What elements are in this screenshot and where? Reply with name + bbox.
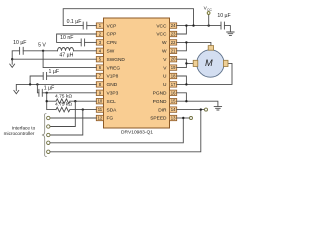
ground G4 bars — [214, 107, 221, 110]
svg-text:10 µF: 10 µF — [217, 13, 230, 19]
wire SW row pin4 — [12, 51, 96, 59]
pin names right — [150, 23, 167, 121]
svg-text:4.75 kΩ: 4.75 kΩ — [55, 93, 72, 99]
ground G3 bars — [227, 32, 234, 35]
ground G1 stub — [11, 59, 13, 64]
wire pin23 joins rail — [177, 26, 187, 34]
node rail-loop junction — [192, 24, 194, 26]
svg-text:V3P3: V3P3 — [107, 91, 119, 97]
motor terminal right — [223, 60, 228, 66]
node V3P3 junction — [46, 92, 48, 94]
svg-text:SWGND: SWGND — [107, 57, 126, 63]
svg-text:5 V: 5 V — [38, 42, 46, 48]
capacitor C4 1uF — [43, 73, 46, 80]
node GND-C5 junction — [36, 83, 38, 85]
svg-text:13: 13 — [171, 116, 176, 121]
wire circle4 SPEED row — [50, 118, 183, 143]
capacitor C6 10uF — [221, 22, 224, 29]
wire V row pin20 — [177, 59, 194, 63]
terminal circle1 FG — [47, 116, 50, 119]
svg-text:23: 23 — [171, 32, 176, 37]
wire C1 to pin1 — [87, 25, 97, 27]
svg-text:VREG: VREG — [107, 65, 121, 71]
svg-text:24: 24 — [171, 23, 176, 28]
node U junction — [185, 83, 187, 85]
wire pin19 joins V — [177, 63, 187, 67]
wire SDA to circle3 — [50, 110, 83, 135]
motor terminal top — [208, 46, 213, 51]
wire W row pin22 to motor top — [177, 42, 211, 45]
brace interface — [42, 114, 46, 157]
svg-text:U: U — [163, 74, 167, 80]
node DIR junction — [200, 108, 202, 110]
svg-text:VCC: VCC — [156, 23, 167, 29]
wire pin21 joins W — [177, 42, 187, 50]
svg-text:PGND: PGND — [153, 91, 167, 97]
wire VCP top loop to VCC rail — [63, 9, 193, 26]
svg-text:0.1 µF: 0.1 µF — [67, 19, 82, 25]
wire V1P8 row pin7 — [30, 76, 96, 84]
terminal circle4 SPEED — [47, 141, 50, 144]
svg-text:11: 11 — [98, 107, 103, 112]
node W junction — [185, 41, 187, 43]
svg-text:U: U — [163, 82, 167, 88]
node SCL tap — [74, 100, 76, 102]
svg-text:microcontroller: microcontroller — [4, 131, 35, 136]
svg-text:DRV10983-Q1: DRV10983-Q1 — [121, 130, 153, 136]
wire SDA row pin11 — [70, 109, 96, 111]
node SCL-pullup junction — [46, 100, 48, 102]
svg-text:GND: GND — [107, 82, 118, 88]
wire U row pin18 to motor right — [177, 76, 187, 84]
svg-text:DIR: DIR — [158, 107, 167, 113]
wire circle5 DIR row — [50, 110, 201, 152]
terminal VCC circle — [207, 12, 210, 15]
terminal SPEED circle — [190, 117, 193, 120]
svg-text:16: 16 — [171, 90, 176, 95]
capacitor C1 0.1uF — [83, 22, 87, 29]
node SPEED junction — [182, 117, 184, 119]
svg-text:W: W — [162, 40, 167, 46]
node SWGND junction — [11, 58, 13, 60]
svg-text:4.75 kΩ: 4.75 kΩ — [55, 102, 72, 108]
svg-text:V1P8: V1P8 — [107, 74, 119, 80]
svg-text:14: 14 — [171, 107, 176, 112]
motor terminal left — [193, 60, 198, 66]
capacitor C5 1uF — [39, 89, 42, 96]
wire PGND rail pin15 to ground — [177, 101, 218, 106]
svg-text:1 µF: 1 µF — [44, 85, 54, 91]
wire 5V to VREG pin6 — [43, 51, 96, 68]
pin numbers right 24-13 — [171, 23, 176, 120]
node V junction — [185, 62, 187, 64]
svg-text:SPEED: SPEED — [150, 116, 167, 122]
wire SWGND pin5 — [12, 58, 96, 60]
capacitor C2 10nF — [81, 39, 84, 46]
svg-text:18: 18 — [171, 74, 176, 79]
motor M1 body — [197, 50, 224, 77]
wire VCC rail pin24 — [177, 25, 221, 27]
svg-text:12: 12 — [98, 116, 103, 121]
pin numbers left 1-12 — [98, 23, 103, 120]
svg-text:10 µF: 10 µF — [13, 40, 26, 46]
node rail-23 junction — [185, 24, 187, 26]
wire SCL row pin10 — [70, 100, 96, 102]
node PGND junction — [185, 100, 187, 102]
terminal circle3 SDA — [47, 133, 50, 136]
svg-text:CPN: CPN — [107, 40, 118, 46]
ground G2 arrow — [14, 90, 19, 93]
wire C2 to pin3 CPN — [85, 41, 97, 43]
svg-text:PGND: PGND — [153, 99, 167, 105]
svg-text:VCP: VCP — [107, 23, 117, 29]
left pin boxes 1-12 — [96, 23, 103, 121]
ground G1 arrow — [10, 64, 15, 67]
wire DIR row pin14 — [177, 109, 205, 111]
capacitor C3 10uF — [20, 47, 24, 54]
pin names left — [107, 23, 126, 121]
resistor R1 4.75k — [56, 99, 70, 104]
svg-text:21: 21 — [171, 48, 176, 53]
svg-text:CC: CC — [207, 8, 212, 12]
svg-text:SW: SW — [107, 49, 115, 55]
svg-text:15: 15 — [171, 99, 176, 104]
svg-text:19: 19 — [171, 65, 176, 70]
node 5V junction — [42, 50, 44, 52]
svg-text:SDA: SDA — [107, 107, 118, 113]
svg-text:22: 22 — [171, 40, 176, 45]
wire V3P3 row pin9 — [37, 84, 96, 92]
wire SCL to circle2 — [50, 101, 75, 126]
wire pullup feed — [47, 93, 56, 110]
node GND-C4 junction — [29, 83, 31, 85]
svg-text:Interface to: Interface to — [12, 126, 36, 131]
terminal circle5 DIR — [47, 150, 50, 153]
svg-text:10 nF: 10 nF — [60, 35, 73, 41]
wire PGND pin16 — [177, 93, 187, 101]
node SDA tap — [82, 108, 84, 110]
wire FG row pin12 to circle1 — [50, 117, 96, 119]
svg-text:FG: FG — [107, 116, 114, 122]
svg-text:1 µF: 1 µF — [49, 69, 59, 75]
svg-text:VCC: VCC — [156, 32, 167, 38]
svg-text:10: 10 — [98, 99, 103, 104]
terminal circle2 SCL — [47, 125, 50, 128]
svg-text:W: W — [162, 49, 167, 55]
wire pin17 joins U — [177, 63, 232, 84]
node rail-Vcc junction — [208, 24, 210, 26]
resistor R2 4.75k — [56, 107, 70, 112]
inductor L1 47uH — [58, 48, 74, 51]
svg-text:17: 17 — [171, 82, 176, 87]
svg-text:SCL: SCL — [107, 99, 117, 105]
wire SPEED row pin13 — [177, 117, 190, 119]
wire C6 to ground — [224, 26, 230, 32]
terminal DIR circle — [205, 108, 208, 111]
svg-text:CPP: CPP — [107, 32, 117, 38]
svg-text:47 µH: 47 µH — [59, 52, 73, 58]
svg-text:20: 20 — [171, 57, 176, 62]
terminal VCC stub — [208, 14, 210, 25]
right pin boxes 24-13 — [170, 23, 177, 121]
wire GND rail pin8 — [16, 84, 96, 90]
IC U1 DRV10983-Q1 body — [104, 18, 170, 128]
wire CPP loop pin2 — [57, 34, 97, 42]
svg-text:M: M — [205, 58, 213, 68]
